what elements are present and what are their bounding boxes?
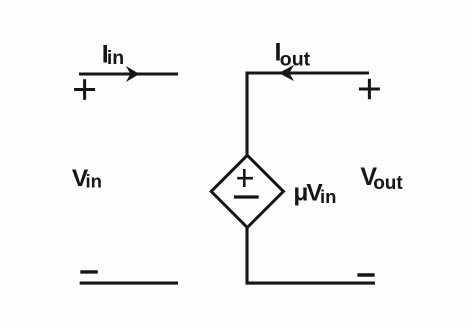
input - terminal <box>80 270 98 273</box>
wire: output node down to source top <box>245 72 248 156</box>
wire: output bottom <box>246 282 376 285</box>
svg-text:out: out <box>280 48 311 70</box>
label Iout <box>275 39 311 71</box>
label μVin (controlled source gain) <box>293 180 336 207</box>
svg-text:in: in <box>86 171 102 192</box>
source - polarity mark <box>234 195 259 198</box>
svg-text:in: in <box>107 47 124 69</box>
wire: output top <box>246 71 370 74</box>
svg-text:out: out <box>373 173 403 194</box>
wire: source bottom down <box>245 227 248 284</box>
dependent voltage source E1 (diamond) <box>211 155 283 227</box>
source + polarity mark <box>237 169 253 187</box>
output + terminal <box>359 79 380 99</box>
input + terminal <box>74 79 95 100</box>
label Iin <box>102 40 124 68</box>
svg-text:in: in <box>320 186 336 207</box>
current arrow Iin (points right) <box>126 66 139 82</box>
label Vin <box>72 165 102 192</box>
current arrow Iout (points left) <box>279 65 294 81</box>
wire: input bottom <box>80 282 178 285</box>
output - terminal <box>357 273 374 276</box>
wire: input top <box>79 72 178 75</box>
label Vout <box>360 163 403 194</box>
